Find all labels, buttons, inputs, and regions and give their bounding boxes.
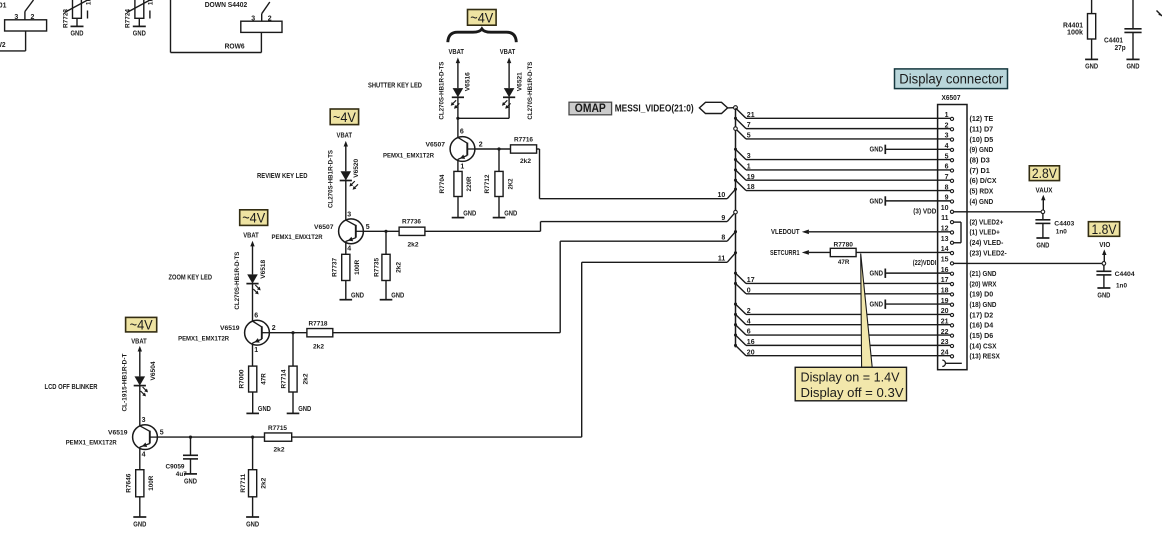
connector pin 10: [941, 205, 954, 214]
wire Q3 base to R7718: [270, 332, 307, 334]
designator V6518: [260, 260, 267, 279]
svg-text:V6518: V6518: [260, 260, 267, 279]
connector pin 22: [941, 329, 993, 340]
wire R7736 to bus bit 9: [425, 222, 727, 232]
svg-text:20: 20: [747, 349, 755, 356]
svg-text:GND: GND: [504, 208, 517, 217]
wire V6521 cathode down: [508, 96, 510, 118]
capacitor C9059 4u7: [166, 437, 199, 478]
left label (3) VDD at pin 10: [913, 207, 936, 216]
wire R7714 stub: [292, 333, 294, 366]
connector pin 2: [945, 122, 994, 133]
GND flag at connector pin 4: [870, 145, 951, 154]
svg-text:GND: GND: [133, 519, 146, 528]
svg-text:GND: GND: [1127, 62, 1140, 71]
VBAT arrow (V6521): [507, 58, 511, 89]
ground for C4403: [1036, 238, 1049, 250]
svg-text:VAUX: VAUX: [1036, 187, 1053, 194]
LED V6520: [340, 171, 358, 189]
designator V6519 (Q4): [108, 430, 128, 437]
svg-text:LCD OFF BLINKER: LCD OFF BLINKER: [45, 384, 98, 391]
part number CL270S-HB1R-D-TS (V6516): [439, 61, 446, 119]
resistor R7736 2k2: [399, 219, 425, 249]
svg-text:~4V: ~4V: [333, 109, 357, 125]
wire V6520 cathode to Q2 collector: [345, 180, 347, 221]
wire pin 10 to VAUX node: [954, 211, 1043, 213]
switch DOWN S4402: [205, 2, 282, 32]
svg-text:R7724: R7724: [125, 9, 132, 28]
svg-text:24: 24: [941, 349, 949, 356]
resistor R7737 100R: [331, 254, 360, 280]
svg-text:2k2: 2k2: [261, 477, 268, 488]
svg-text:12: 12: [941, 226, 949, 233]
bus tap bit 0 to connector pin 18: [734, 282, 950, 294]
svg-text:1k: 1k: [148, 0, 155, 5]
resistor R4401 100k: [1063, 0, 1096, 39]
svg-text:PEMX1_EMX1T2R: PEMX1_EMX1T2R: [383, 153, 434, 160]
wire V6504 cathode to Q4 collector: [139, 385, 141, 427]
svg-text:ROW6: ROW6: [225, 44, 245, 51]
pin 2 label (Q1 base): [479, 141, 483, 148]
svg-text:R7714: R7714: [280, 369, 287, 388]
svg-text:2: 2: [747, 308, 751, 315]
svg-text:Display off = 0.3V: Display off = 0.3V: [801, 385, 904, 400]
svg-text:7: 7: [747, 122, 751, 129]
svg-text:C9059: C9059: [166, 463, 185, 470]
pin 1 label (Q3 emitter): [254, 347, 258, 354]
svg-text:1: 1: [460, 164, 464, 171]
svg-text:R7718: R7718: [309, 321, 328, 328]
svg-text:3: 3: [747, 153, 751, 160]
svg-text:1n0: 1n0: [1116, 282, 1127, 289]
connector pin 11: [941, 215, 1004, 226]
svg-text:GND: GND: [1036, 241, 1049, 250]
svg-text:(4) GND: (4) GND: [970, 197, 994, 206]
svg-text:16: 16: [747, 339, 755, 346]
svg-text:2k2: 2k2: [520, 158, 531, 165]
svg-text:(16) D4: (16) D4: [970, 321, 994, 330]
svg-text:~4V: ~4V: [130, 317, 154, 333]
GND flag at connector pin 9: [870, 196, 951, 205]
svg-text:R7723: R7723: [63, 9, 70, 28]
designator V6507 (Q1): [426, 141, 446, 148]
svg-text:(8) D3: (8) D3: [970, 155, 990, 164]
svg-text:S4401: S4401: [0, 3, 7, 10]
resistor R7712 2K2: [484, 171, 514, 196]
svg-text:(7) D1: (7) D1: [970, 166, 990, 175]
pin 4 label (Q4 emitter): [142, 451, 146, 458]
svg-text:R7715: R7715: [268, 425, 287, 432]
svg-text:(20) WRX: (20) WRX: [970, 279, 997, 288]
wire R7715 to bus bit 11: [292, 262, 728, 437]
svg-text:4: 4: [347, 245, 351, 252]
label LCD OFF BLINKER: [45, 384, 98, 391]
svg-text:11: 11: [941, 215, 949, 222]
svg-text:PEMX1_EMX1T2R: PEMX1_EMX1T2R: [178, 335, 229, 342]
wire pin 15 to VIO node: [954, 262, 1104, 264]
svg-text:CL270S-HB1R-D-TS: CL270S-HB1R-D-TS: [234, 251, 241, 309]
svg-text:7: 7: [945, 174, 949, 181]
wire Q1 base to R7716: [475, 148, 511, 150]
svg-text:Display connector: Display connector: [899, 72, 1003, 87]
VBAT arrow (V6516): [456, 58, 460, 89]
svg-text:2: 2: [945, 122, 949, 129]
svg-text:6: 6: [945, 164, 949, 171]
ground for C4401: [1126, 59, 1139, 70]
ground for R7723: [71, 18, 84, 37]
resistor R7714 2k2: [280, 366, 309, 392]
svg-text:1k: 1k: [85, 0, 92, 5]
bus tap bit 19 to connector pin 7: [734, 168, 950, 180]
svg-text:R7736: R7736: [402, 219, 421, 226]
ground for R7735: [380, 281, 405, 300]
svg-text:V6507: V6507: [314, 224, 334, 231]
svg-text:1.8V: 1.8V: [1092, 221, 1118, 237]
designator V6519 (Q3): [220, 325, 240, 332]
svg-text:R7780: R7780: [833, 241, 853, 248]
pin 3 label (Q4 collector): [142, 417, 146, 424]
connector pin 13: [941, 236, 1004, 247]
svg-text:REVIEW KEY LED: REVIEW KEY LED: [257, 173, 308, 180]
svg-text:CL270S-HB1R-D-TS: CL270S-HB1R-D-TS: [439, 61, 446, 119]
wire V6518 cathode to Q3 collector: [252, 283, 254, 322]
net SETCURR1 with arrow: [770, 248, 830, 257]
ground for C4404: [1097, 288, 1110, 300]
svg-text:2k2: 2k2: [408, 242, 419, 249]
svg-text:4: 4: [142, 451, 146, 458]
pin 6 label (Q3 collector): [254, 313, 258, 320]
VBAT arrow (V6504): [138, 346, 142, 377]
wire R7711 stub: [252, 437, 254, 470]
svg-text:23: 23: [941, 339, 949, 346]
power label ~4V (blinker): [126, 317, 157, 333]
svg-text:~4V: ~4V: [242, 210, 266, 226]
connector pin 4: [945, 143, 994, 154]
connector pin 19: [941, 298, 997, 309]
ground for R7737: [340, 281, 365, 300]
svg-text:GND: GND: [870, 196, 884, 205]
bus entry symbol (hexagon): [699, 102, 733, 113]
svg-text:100R: 100R: [354, 260, 361, 275]
svg-text:SHUTTER KEY LED: SHUTTER KEY LED: [368, 83, 422, 90]
part PEMX1_EMX1T2R (Q4): [66, 440, 117, 447]
svg-text:2K2: 2K2: [508, 178, 515, 189]
net label VBAT (V6520): [337, 132, 353, 139]
svg-text:ROW2: ROW2: [0, 42, 6, 49]
connector pin 21: [941, 318, 994, 329]
svg-text:9: 9: [721, 215, 725, 222]
GND flag at connector pin 19: [870, 299, 951, 308]
svg-text:(17) D2: (17) D2: [970, 310, 994, 319]
svg-text:2: 2: [479, 141, 483, 148]
svg-text:VBAT: VBAT: [500, 49, 516, 56]
LED V6518: [246, 274, 260, 294]
resistor R7711 2k2: [240, 470, 268, 497]
title box Display connector: [895, 69, 1008, 89]
net label VBAT (V6518): [243, 232, 259, 239]
ground for R7711: [246, 497, 259, 529]
svg-text:18: 18: [747, 184, 755, 191]
bus tap bit 17 to connector pin 17: [734, 272, 950, 284]
bus join bit 11: [718, 251, 737, 262]
block label OMAP: [569, 101, 612, 115]
bus tap bit 20 to connector pin 24: [734, 344, 950, 356]
wire R7712 stub: [498, 149, 500, 171]
svg-text:220R: 220R: [466, 176, 473, 191]
svg-text:4: 4: [945, 143, 949, 150]
wire Q3 emitter to R7000: [252, 344, 254, 367]
bus tap bit 16 to connector pin 23: [734, 334, 950, 346]
shield pin of X6507: [942, 360, 962, 366]
svg-text:PEMX1_EMX1T2R: PEMX1_EMX1T2R: [272, 234, 323, 241]
pin 6 label (Q1 collector): [460, 129, 464, 136]
bus vertical line MESSI_VIDEO: [735, 110, 737, 348]
bus tap bit 6 to connector pin 22: [734, 323, 950, 335]
svg-text:X6507: X6507: [942, 95, 961, 102]
junction dot Q4 base / C9059: [189, 436, 192, 439]
svg-text:GND: GND: [133, 29, 146, 38]
svg-text:(14) CSX: (14) CSX: [970, 341, 997, 350]
svg-text:CL-1915-HB1R-D-T: CL-1915-HB1R-D-T: [121, 353, 128, 412]
resistor R7718 2k2: [307, 321, 333, 351]
svg-text:2k2: 2k2: [313, 344, 324, 351]
part number CL270S-HB1R-D-TS (V6520): [327, 150, 334, 208]
svg-text:V6516: V6516: [465, 72, 472, 91]
bracket joining pins 11 and 13: [954, 222, 961, 243]
pin 4 label (Q2 emitter): [347, 245, 351, 252]
svg-text:CL270S-HB1R-D-TS: CL270S-HB1R-D-TS: [527, 61, 534, 119]
svg-text:11: 11: [718, 256, 726, 263]
LED V6516: [451, 88, 464, 109]
net label VIO: [1099, 242, 1111, 249]
capacitor C4401 27p: [1104, 0, 1142, 59]
svg-text:5: 5: [366, 224, 370, 231]
connector pin 14: [941, 246, 1007, 257]
ground for C9059: [184, 474, 197, 486]
connector pin 3: [945, 133, 994, 144]
wire S4402 to ROW6 net: [171, 0, 262, 53]
pin 5 label (Q2 base): [366, 224, 370, 231]
label ZOOM KEY LED: [169, 275, 213, 282]
designator V6507 (Q2): [314, 224, 334, 231]
bus tap bit 2 to connector pin 20: [734, 303, 950, 315]
left label (22)VDDI at pin 15: [913, 258, 937, 267]
svg-text:8: 8: [945, 184, 949, 191]
svg-text:GND: GND: [298, 404, 311, 413]
svg-text:C4404: C4404: [1115, 271, 1135, 278]
connector pin 6: [945, 164, 990, 175]
svg-text:(9) GND: (9) GND: [970, 145, 994, 154]
svg-text:V6519: V6519: [220, 325, 240, 332]
svg-text:2k2: 2k2: [274, 447, 285, 454]
svg-text:R7646: R7646: [125, 473, 132, 492]
svg-text:DOWN S4402: DOWN S4402: [205, 2, 248, 9]
pin 3 label (Q2 collector): [347, 211, 351, 218]
svg-text:6: 6: [460, 129, 464, 136]
svg-text:V6521: V6521: [516, 72, 523, 91]
transistor V6507 second half (Q2): [339, 219, 364, 244]
svg-text:R7704: R7704: [439, 174, 446, 193]
ground for R7704: [452, 197, 477, 218]
junction dot Q4 base / R7711: [251, 436, 254, 439]
svg-text:(21) GND: (21) GND: [970, 269, 997, 278]
connector pin 12: [941, 226, 1001, 237]
svg-text:(10) D5: (10) D5: [970, 135, 994, 144]
svg-text:C4403: C4403: [1054, 221, 1074, 228]
net label VBAT (LED V6516): [448, 49, 464, 56]
bus tap bit 7 to connector pin 2: [734, 117, 950, 129]
wire R7718 to bus bit 8: [333, 241, 727, 333]
svg-text:16: 16: [941, 267, 949, 274]
ground for R7714: [287, 392, 312, 413]
brace under ~4V: [448, 29, 517, 42]
connector pin 16: [941, 267, 997, 278]
svg-text:Display on = 1.4V: Display on = 1.4V: [801, 370, 900, 385]
power label 2.8V: [1029, 165, 1059, 181]
svg-text:(6) D/CX: (6) D/CX: [970, 176, 997, 185]
VBAT arrow (V6518): [250, 241, 254, 275]
svg-text:GND: GND: [1097, 291, 1110, 300]
svg-text:2: 2: [272, 325, 276, 332]
net label VAUX: [1036, 187, 1053, 194]
svg-text:GND: GND: [258, 404, 271, 413]
ground for R7724: [133, 18, 146, 37]
svg-text:(13) RESX: (13) RESX: [970, 352, 1000, 361]
connector pin 17: [941, 277, 997, 288]
connector pin 8: [945, 184, 994, 195]
GND flag at connector pin 16: [870, 269, 951, 278]
svg-text:ZOOM KEY LED: ZOOM KEY LED: [169, 275, 213, 282]
svg-text:VBAT: VBAT: [131, 339, 147, 346]
svg-text:6: 6: [254, 313, 258, 320]
svg-text:6: 6: [747, 329, 751, 336]
svg-text:GND: GND: [1085, 62, 1098, 71]
svg-text:GND: GND: [870, 145, 884, 154]
power label ~4V (shutter): [468, 9, 497, 25]
capacitor C4403 1n0: [1035, 214, 1074, 238]
svg-text:10: 10: [718, 192, 726, 199]
part PEMX1_EMX1T2R (Q1): [383, 153, 434, 160]
svg-text:19: 19: [747, 174, 755, 181]
junction dot Q2 base / R7735: [384, 230, 387, 233]
svg-text:GND: GND: [71, 29, 84, 38]
svg-text:1n0: 1n0: [1056, 228, 1067, 235]
svg-text:CL270S-HB1R-D-TS: CL270S-HB1R-D-TS: [327, 150, 334, 208]
svg-text:8: 8: [721, 234, 725, 241]
svg-text:R7737: R7737: [331, 258, 338, 277]
power label ~4V (zoom): [240, 210, 268, 226]
wire R7716 to bus bit 10: [537, 149, 728, 199]
svg-text:0: 0: [747, 287, 751, 294]
capacitor C4404 1n0: [1096, 265, 1134, 289]
bus join bit 10: [718, 188, 738, 199]
wire Q1 emitter to R7704: [457, 160, 459, 172]
svg-text:VIO: VIO: [1099, 242, 1111, 249]
svg-text:5: 5: [160, 430, 164, 437]
part number CL-1915-HB1R-D-T (V6504): [121, 353, 128, 412]
svg-text:(22)VDDI: (22)VDDI: [913, 258, 937, 267]
junction dot at LED node: [456, 117, 459, 120]
LED V6521: [502, 88, 515, 109]
svg-text:(12) TE: (12) TE: [970, 114, 994, 123]
net label VBAT (LED V6521): [500, 49, 516, 56]
svg-text:100R: 100R: [148, 476, 155, 491]
bus name MESSI_VIDEO(21:0): [615, 104, 694, 115]
svg-text:18: 18: [941, 287, 949, 294]
connector pin 18: [941, 287, 993, 298]
transistor V6519 first half (Q3): [245, 320, 270, 345]
junction dot Q3 base / R7714: [291, 331, 294, 334]
wire node to Q1 collector: [457, 118, 459, 138]
junction circle VIO: [1102, 262, 1106, 266]
svg-text:GND: GND: [351, 291, 364, 300]
svg-text:(24) VLED-: (24) VLED-: [970, 238, 1004, 247]
trimmer resistor R7724: [125, 0, 155, 28]
bus start circle: [734, 106, 738, 110]
svg-text:R7712: R7712: [484, 174, 491, 193]
svg-text:15: 15: [941, 257, 949, 264]
svg-text:VLEDOUT: VLEDOUT: [771, 227, 800, 236]
wire Q2 emitter to R7737: [345, 242, 347, 254]
svg-text:2.8V: 2.8V: [1032, 165, 1058, 181]
svg-text:47R: 47R: [261, 373, 268, 385]
svg-text:C4401: C4401: [1104, 38, 1123, 45]
resistor R7715 2k2: [265, 425, 292, 454]
wire joining LED cathodes: [458, 117, 509, 119]
svg-text:(2) VLED2+: (2) VLED2+: [970, 217, 1004, 226]
svg-text:19: 19: [941, 298, 949, 305]
designator V6504: [150, 361, 157, 380]
svg-text:(3) VDD: (3) VDD: [913, 207, 936, 216]
svg-text:9: 9: [945, 195, 949, 202]
svg-text:(23) VLED2-: (23) VLED2-: [970, 248, 1008, 257]
bus tap bit 5 to connector pin 3: [734, 127, 951, 140]
resistor R7716 2k2: [511, 136, 537, 165]
svg-text:PEMX1_EMX1T2R: PEMX1_EMX1T2R: [66, 440, 117, 447]
svg-text:V6504: V6504: [150, 361, 157, 380]
edge mark top right corner: [1157, 11, 1162, 17]
part number CL270S-HB1R-D-TS (V6521): [527, 61, 534, 119]
callout pointer triangle: [861, 254, 873, 368]
svg-text:17: 17: [941, 277, 949, 284]
svg-text:1: 1: [945, 112, 949, 119]
junction dot Q1 base / R7712: [497, 147, 500, 150]
svg-text:GND: GND: [870, 269, 884, 278]
part number CL270S-HB1R-D-TS (V6518): [234, 251, 241, 309]
label SHUTTER KEY LED: [368, 83, 422, 90]
svg-text:V6507: V6507: [426, 141, 446, 148]
svg-text:100k: 100k: [1067, 30, 1083, 37]
svg-text:20: 20: [941, 308, 949, 315]
connector pin 9: [945, 195, 994, 206]
pin 1 label (Q1 emitter): [460, 164, 464, 171]
svg-text:1: 1: [747, 164, 751, 171]
svg-text:(15) D6: (15) D6: [970, 331, 994, 340]
svg-text:VBAT: VBAT: [448, 49, 464, 56]
bus tap bit 3 to connector pin 5: [734, 148, 950, 160]
bus join bit 8: [721, 230, 737, 241]
VIO arrow up: [1102, 249, 1106, 261]
label REVIEW KEY LED: [257, 173, 308, 180]
part PEMX1_EMX1T2R (Q3): [178, 335, 229, 342]
svg-text:3: 3: [142, 417, 146, 424]
part PEMX1_EMX1T2R (Q2): [272, 234, 323, 241]
svg-text:MESSI_VIDEO(21:0): MESSI_VIDEO(21:0): [615, 104, 694, 115]
svg-text:3: 3: [347, 211, 351, 218]
resistor R7646 100R: [125, 470, 154, 497]
svg-text:21: 21: [747, 112, 755, 119]
svg-text:(19) D0: (19) D0: [970, 290, 994, 299]
